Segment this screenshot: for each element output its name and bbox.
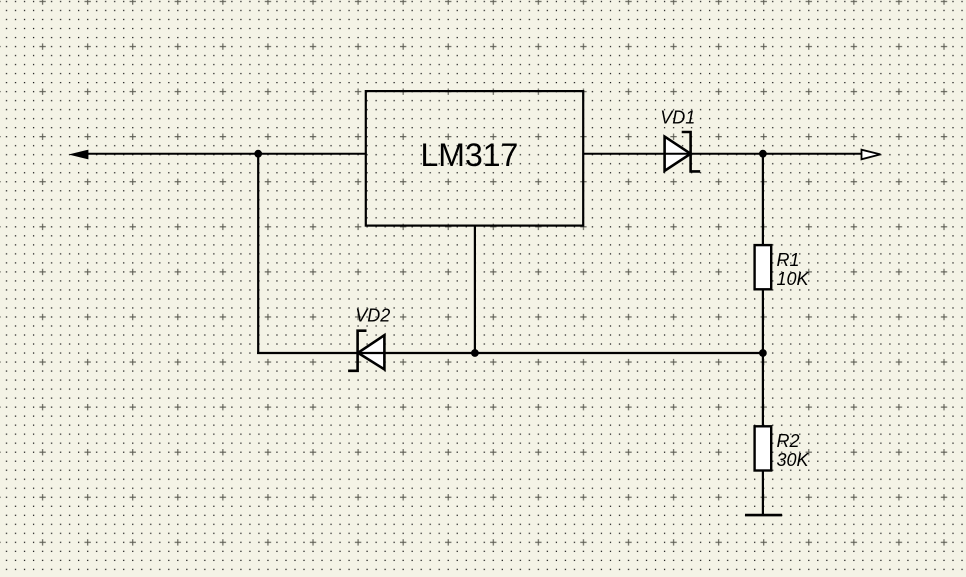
svg-text:VD1: VD1: [660, 108, 695, 128]
svg-text:R1: R1: [777, 250, 800, 270]
op-amp regulator U1 LM317 box: [366, 91, 583, 226]
left output arrow: [69, 150, 89, 160]
node D junction (R1/R2 rail): [759, 349, 767, 357]
node A junction: [254, 150, 262, 158]
diode VD1 triangle fill: [665, 137, 691, 171]
wire: right column vertical: [762, 154, 764, 515]
svg-text:R2: R2: [777, 431, 800, 451]
zener diode VD1: [665, 132, 701, 171]
wire: lower horizontal rail: [257, 352, 763, 354]
zener diode VD2: [348, 331, 384, 371]
svg-text:30K: 30K: [777, 450, 810, 470]
right output arrow: [862, 150, 881, 160]
ground: [745, 514, 782, 517]
svg-text:10K: 10K: [777, 269, 810, 289]
node B junction (output / R1): [759, 150, 767, 158]
svg-text:LM317: LM317: [421, 137, 519, 173]
zener diode VD2 triangle fill: [358, 335, 384, 369]
wire: left arrow to LM317 input: [86, 153, 366, 155]
node C junction (adj rail): [471, 349, 479, 357]
wire: LM317 output to right arrow: [583, 153, 862, 155]
svg-text:VD2: VD2: [355, 306, 390, 326]
resistor R2: [755, 426, 772, 470]
wire: node A down to lower rail: [257, 154, 259, 354]
resistor R1: [755, 245, 772, 289]
wire: LM317 adj pin down: [474, 226, 476, 353]
